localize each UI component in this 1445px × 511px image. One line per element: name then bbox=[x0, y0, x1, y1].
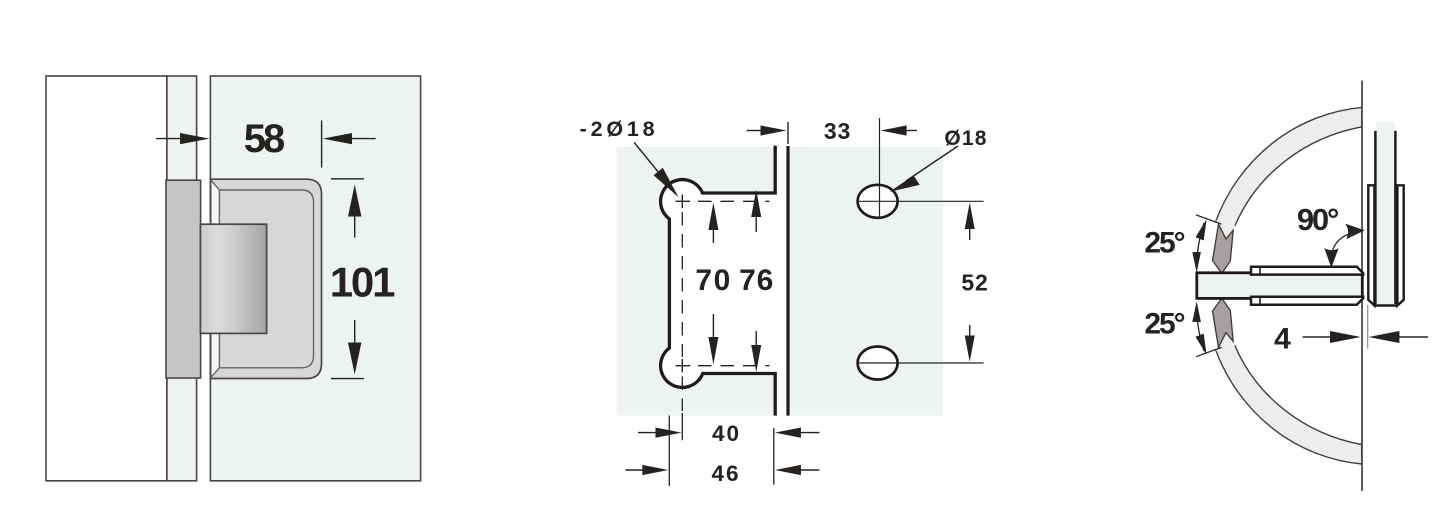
swing band end wedge bottom bbox=[1216, 333, 1235, 351]
dimension 76 up arrow bbox=[751, 190, 761, 232]
top hole crosshair bbox=[857, 200, 984, 202]
dimension 70 down arrow bbox=[708, 314, 718, 365]
svg-text:33: 33 bbox=[824, 118, 851, 144]
door clamp top plate bbox=[1251, 267, 1363, 275]
90 dim arc bbox=[1333, 234, 1351, 251]
dimension 4 left arrow bbox=[1303, 331, 1361, 343]
swing band end wedge top bbox=[1216, 220, 1235, 239]
swing direction chevron top bbox=[1213, 224, 1234, 273]
extension line for 40 right bbox=[773, 428, 775, 485]
wall mounting plate bbox=[166, 180, 201, 378]
dimension 58 left arrow bbox=[156, 133, 210, 144]
dimension 46 left arrow bbox=[626, 465, 669, 475]
wall panel bbox=[46, 76, 167, 481]
swing direction chevron bottom bbox=[1213, 298, 1234, 347]
top hole bbox=[858, 185, 898, 218]
glass panel left (door glass) bbox=[617, 147, 774, 416]
hinge body bbox=[211, 179, 322, 378]
hinge plate profile bbox=[661, 146, 776, 416]
dimension 101 down arrow bbox=[348, 320, 361, 375]
glass panel right (fixed glass) bbox=[790, 147, 943, 416]
svg-text:70: 70 bbox=[695, 264, 731, 297]
door clamp bottom plate bbox=[1251, 297, 1363, 305]
25 bottom tick bbox=[1196, 347, 1222, 356]
centerline solid stub below glass bbox=[681, 413, 683, 440]
leader arrow to top hole right bbox=[890, 146, 958, 192]
svg-text:52: 52 bbox=[961, 270, 988, 296]
dimension 101 up arrow bbox=[348, 185, 361, 238]
svg-text:Ø18: Ø18 bbox=[944, 127, 987, 150]
vertical centerline (dash-dot) bbox=[681, 212, 683, 357]
hinge barrel bbox=[200, 224, 266, 333]
svg-text:25°: 25° bbox=[1144, 308, 1184, 341]
hole centerline vertical bbox=[879, 118, 881, 218]
wall clamp right plate bbox=[1397, 185, 1403, 305]
dimension 33 tick (glass edge extension) bbox=[787, 122, 789, 144]
dimension 33 left arrow bbox=[747, 125, 787, 135]
bottom hole bbox=[858, 347, 898, 380]
dimension 33 right arrow bbox=[881, 125, 917, 135]
clamp step lines bbox=[1259, 267, 1261, 275]
25 top dim arc bbox=[1197, 223, 1205, 262]
svg-text:76: 76 bbox=[739, 264, 774, 297]
dimension 58 right tick bbox=[321, 121, 323, 168]
svg-text:58: 58 bbox=[244, 117, 285, 161]
extension line for 46 bbox=[668, 416, 670, 486]
dimension 101 bottom tick bbox=[331, 378, 364, 380]
bottom hole crosshair bbox=[857, 362, 984, 364]
fixed glass side lines bbox=[1374, 131, 1377, 304]
hinge body left rim highlight bbox=[212, 181, 220, 376]
25 top tick bbox=[1196, 215, 1222, 224]
wall line bbox=[1361, 81, 1363, 491]
door glass bar bbox=[1197, 273, 1363, 299]
dimension 70 up arrow bbox=[708, 203, 718, 244]
svg-text:4: 4 bbox=[1274, 322, 1291, 355]
svg-text:25°: 25° bbox=[1144, 226, 1184, 259]
dimension 101 top tick bbox=[331, 178, 364, 180]
svg-text:90°: 90° bbox=[1297, 202, 1339, 237]
dimension 76 down arrow bbox=[751, 331, 761, 372]
25 top arrowheads bbox=[1192, 219, 1206, 273]
dashed hole centerline bottom bbox=[698, 365, 769, 367]
dimension 40 right arrow bbox=[775, 428, 820, 438]
90 arrowhead right bbox=[1345, 224, 1365, 240]
leader arrow to top hole bbox=[634, 142, 679, 197]
fixed glass bottom line bbox=[1374, 304, 1398, 306]
dimension 52 up arrow bbox=[965, 203, 975, 241]
svg-text:40: 40 bbox=[712, 421, 741, 446]
svg-text:46: 46 bbox=[711, 461, 740, 486]
dimension 46 right arrow bbox=[775, 465, 820, 475]
dimension 40 left arrow bbox=[638, 428, 682, 438]
extension line for 4 bbox=[1367, 305, 1369, 349]
glass strip (edge view) bbox=[167, 76, 197, 481]
dimension 58 right arrow bbox=[323, 133, 376, 144]
25 bottom arrowheads bbox=[1192, 301, 1206, 355]
glass edge line bbox=[786, 146, 789, 416]
svg-text:-2Ø18: -2Ø18 bbox=[580, 117, 659, 141]
dimension 52 down arrow bbox=[965, 325, 975, 362]
wall clamp left plate bbox=[1368, 185, 1374, 305]
hinge body inner line bbox=[211, 180, 314, 378]
90 arrowhead down bbox=[1324, 248, 1338, 268]
swing arc band top bbox=[1216, 107, 1362, 225]
svg-text:101: 101 bbox=[330, 258, 395, 305]
dimension 4 right arrow bbox=[1369, 331, 1428, 343]
glass panel bbox=[210, 76, 420, 481]
fixed glass bbox=[1376, 122, 1394, 305]
hole center cross bottom bbox=[676, 365, 691, 367]
25 bottom dim arc bbox=[1197, 312, 1205, 351]
hole center cross top bbox=[676, 200, 691, 202]
swing arc band bottom bbox=[1216, 346, 1362, 464]
dashed hole centerline top bbox=[698, 200, 769, 202]
